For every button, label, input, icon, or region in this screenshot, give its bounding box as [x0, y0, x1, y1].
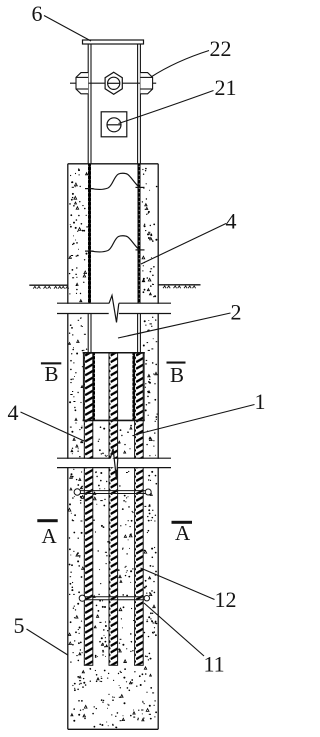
svg-text:6: 6: [32, 1, 43, 26]
leader 2: [118, 313, 231, 338]
break zigzag 2: [110, 449, 118, 480]
hex nut 22: [105, 72, 122, 94]
sleeve outer wall left: [82, 353, 84, 421]
pile outline (precast pile 4 / cast-in-place pile 5): [68, 164, 158, 730]
leader 11: [144, 603, 204, 656]
sleeve top plate: [83, 352, 145, 354]
leader 4 right: [141, 224, 226, 265]
svg-text:22: 22: [210, 36, 232, 61]
top cap plate 6: [83, 40, 144, 44]
sleeve outer wall right: [143, 353, 145, 421]
break band 2: [57, 459, 171, 467]
concrete stipple texture: [68, 168, 158, 728]
grout level wave 1: [85, 173, 145, 189]
break band 1: [57, 304, 171, 313]
svg-text:11: 11: [204, 652, 225, 677]
anchor bar middle 12 (hatched): [109, 353, 118, 665]
leader 22: [151, 51, 209, 78]
leader 1: [134, 405, 255, 436]
svg-text:A: A: [42, 524, 58, 548]
screw box 21: [101, 112, 127, 137]
anchor bar left 12 (hatched): [84, 353, 93, 665]
svg-text:5: 5: [14, 613, 25, 638]
steel post tube above ground, right wall: [137, 44, 139, 164]
stirrup tie 11 lower: [79, 595, 149, 601]
svg-text:A: A: [175, 521, 191, 545]
ground line left: [29, 284, 68, 286]
soil hatch left: [33, 286, 68, 288]
leader 6: [44, 16, 91, 42]
anchor bar right 12 (hatched): [135, 353, 144, 665]
svg-text:B: B: [45, 362, 59, 386]
tube wall section right (dark dotted): [132, 353, 134, 420]
svg-text:12: 12: [215, 587, 237, 612]
ground line right: [158, 284, 200, 286]
leader 5: [27, 629, 68, 655]
break zigzag 1: [109, 295, 119, 322]
stirrup tie 11 upper: [74, 489, 151, 495]
steel tube wall left (embedded, dark): [88, 164, 91, 304]
grout level wave 2: [85, 236, 145, 252]
steel tube wall right (embedded, dark): [138, 164, 141, 304]
steel post tube above ground, left wall: [88, 44, 140, 164]
svg-text:B: B: [170, 363, 184, 387]
svg-text:4: 4: [8, 400, 19, 425]
svg-text:1: 1: [255, 389, 266, 414]
svg-text:2: 2: [231, 300, 242, 325]
bolt centerline 22: [70, 82, 156, 84]
left clamp nut: [76, 73, 88, 94]
svg-text:4: 4: [226, 209, 237, 234]
leader 21: [119, 91, 214, 124]
right clamp nut: [140, 73, 152, 94]
section marker B right: [167, 362, 186, 388]
sleeve bottom plate: [83, 419, 145, 421]
section marker A left: [37, 519, 57, 548]
svg-text:21: 21: [215, 75, 237, 100]
leader 4 left: [21, 412, 85, 441]
screw circle 21: [107, 118, 121, 132]
soil hatch right: [163, 286, 196, 288]
tube walls between break and anchor sleeve: [88, 314, 140, 353]
tube wall section left (dark dotted): [93, 353, 95, 420]
section marker B left: [41, 362, 61, 386]
section marker A right: [172, 521, 193, 545]
leader 12: [141, 568, 215, 600]
